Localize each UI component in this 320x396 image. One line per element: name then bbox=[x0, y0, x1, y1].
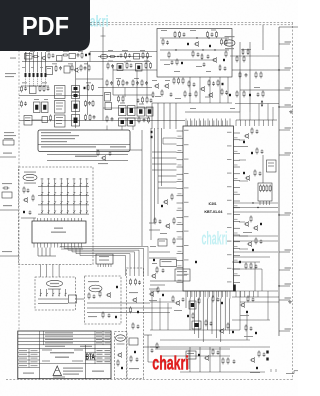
junction bbox=[208, 37, 209, 38]
box bbox=[30, 86, 37, 94]
wire bbox=[60, 178, 62, 182]
diode D8 bbox=[89, 53, 91, 55]
wire bbox=[232, 296, 279, 298]
capacitor C26 bbox=[171, 61, 174, 65]
label bbox=[144, 61, 149, 62]
capacitor C58 bbox=[259, 172, 262, 176]
label bbox=[285, 249, 292, 250]
box bbox=[136, 64, 143, 72]
resistor R3 bbox=[62, 54, 69, 56]
label bbox=[152, 263, 157, 264]
wire bbox=[59, 247, 61, 248]
resistor R17 bbox=[50, 114, 52, 121]
wire bbox=[240, 89, 279, 91]
capacitor C55 bbox=[263, 353, 266, 357]
diode D33 bbox=[151, 136, 153, 138]
resistor R87 bbox=[135, 278, 137, 285]
wire bbox=[209, 347, 211, 372]
resistor R78 bbox=[2, 187, 9, 189]
wire bbox=[58, 289, 60, 292]
wire bbox=[92, 251, 135, 253]
capacitor C6 bbox=[47, 87, 50, 91]
label bbox=[159, 241, 165, 242]
wire bbox=[262, 25, 264, 50]
wire bbox=[234, 275, 241, 277]
resistor R108 bbox=[256, 147, 258, 154]
capacitor C19 bbox=[150, 99, 153, 103]
box bbox=[158, 239, 167, 246]
resistor R1 bbox=[32, 56, 39, 58]
label bbox=[47, 178, 50, 181]
label bbox=[227, 132, 232, 133]
transistor Q12 bbox=[101, 155, 106, 161]
diode D34 bbox=[161, 205, 163, 207]
wire bbox=[234, 159, 241, 161]
connector label bbox=[47, 280, 63, 286]
label bbox=[41, 138, 75, 139]
box bbox=[175, 269, 190, 281]
wire bbox=[106, 126, 108, 131]
box bbox=[42, 117, 48, 123]
label bbox=[110, 146, 126, 147]
wire bbox=[39, 345, 41, 379]
wire bbox=[38, 195, 89, 197]
transistor Q21 bbox=[204, 355, 209, 361]
resistor R98 bbox=[212, 295, 214, 302]
capacitor C52 bbox=[250, 327, 253, 331]
resistor R94 bbox=[157, 286, 159, 293]
wire bbox=[41, 205, 43, 210]
wire bbox=[149, 288, 158, 290]
wire bbox=[202, 299, 204, 343]
wire bbox=[29, 52, 31, 73]
wire bbox=[234, 152, 241, 154]
wire bbox=[25, 52, 27, 73]
resistor R84 bbox=[102, 311, 104, 318]
wire bbox=[90, 51, 157, 53]
wire bbox=[240, 301, 279, 303]
resistor R42 bbox=[179, 31, 181, 38]
wire bbox=[63, 247, 65, 250]
label bbox=[285, 267, 292, 268]
wire bbox=[49, 248, 51, 257]
IC201 bottom pins bbox=[186, 291, 230, 299]
label bbox=[177, 271, 187, 272]
wire bbox=[160, 59, 215, 61]
box bbox=[55, 115, 66, 127]
wire bbox=[38, 144, 130, 146]
wire bbox=[67, 178, 69, 182]
wire bbox=[86, 196, 88, 201]
wire bbox=[219, 77, 221, 103]
wire bbox=[239, 221, 245, 223]
label bbox=[227, 227, 232, 228]
capacitor C21 bbox=[143, 118, 146, 122]
label bbox=[178, 135, 182, 138]
resistor R26 bbox=[145, 62, 147, 69]
wire bbox=[234, 254, 241, 256]
diode D3 bbox=[33, 73, 35, 77]
resistor R36 bbox=[146, 96, 148, 103]
resistor R49 bbox=[176, 58, 178, 65]
diode D31 bbox=[233, 285, 236, 292]
label bbox=[60, 178, 63, 181]
svg-text:PDF: PDF bbox=[22, 11, 69, 41]
switch SW8 bbox=[86, 182, 88, 187]
label bbox=[165, 80, 170, 81]
capacitor C46 bbox=[162, 269, 165, 273]
label bbox=[178, 250, 182, 253]
capacitor C38 bbox=[27, 189, 30, 193]
resistor R77 bbox=[173, 237, 175, 244]
wire bbox=[38, 298, 68, 300]
label bbox=[3, 153, 12, 154]
switch SW30 bbox=[73, 210, 75, 215]
label bbox=[285, 67, 292, 68]
wire bbox=[150, 329, 240, 331]
label bbox=[52, 63, 57, 64]
wire bbox=[236, 119, 277, 121]
capacitor C57 bbox=[261, 150, 264, 154]
wire bbox=[98, 56, 152, 58]
transistor Q9 bbox=[163, 199, 168, 205]
wire bbox=[279, 154, 290, 156]
box bbox=[105, 93, 111, 102]
wire bbox=[18, 337, 111, 339]
wire bbox=[249, 42, 251, 112]
wire bbox=[149, 257, 177, 259]
wire bbox=[230, 55, 279, 57]
wire bbox=[229, 299, 231, 335]
wire bbox=[279, 69, 290, 71]
diode D29 bbox=[222, 83, 224, 85]
transistor Q25 bbox=[244, 221, 249, 227]
wire bbox=[47, 178, 49, 182]
label bbox=[56, 123, 62, 124]
label bbox=[42, 82, 47, 83]
ground bbox=[288, 300, 292, 303]
transistor Q14 bbox=[117, 352, 122, 358]
diode D47 bbox=[221, 302, 223, 304]
wire bbox=[233, 202, 278, 204]
resistor R46 bbox=[221, 38, 223, 45]
wire bbox=[232, 319, 270, 321]
box bbox=[129, 338, 138, 345]
capacitor C43 bbox=[138, 281, 141, 285]
wire bbox=[125, 256, 127, 277]
label bbox=[234, 218, 238, 221]
resistor R54 bbox=[247, 48, 249, 55]
capacitor C8 bbox=[88, 101, 91, 105]
label bbox=[254, 87, 260, 88]
box bbox=[72, 115, 80, 127]
wire bbox=[177, 180, 184, 182]
diode D40 bbox=[134, 351, 136, 353]
capacitor C36 bbox=[225, 91, 228, 95]
label bbox=[4, 138, 13, 139]
wire bbox=[41, 52, 43, 73]
label bbox=[22, 82, 27, 83]
sub-circuit A enclosure bbox=[85, 276, 122, 324]
resistor R82 bbox=[88, 292, 90, 299]
wire bbox=[180, 371, 265, 373]
wire drop bundle bbox=[236, 120, 273, 126]
arrow marker bbox=[261, 100, 263, 107]
box bbox=[55, 86, 66, 99]
capacitor C11 bbox=[128, 54, 131, 58]
switch SW16 bbox=[86, 191, 88, 196]
label bbox=[4, 135, 16, 136]
label bbox=[48, 289, 61, 290]
wire bbox=[177, 202, 184, 204]
label bbox=[206, 71, 211, 72]
wire bbox=[47, 154, 128, 156]
wire bbox=[177, 231, 184, 233]
wire bbox=[234, 261, 241, 263]
wire bbox=[87, 302, 150, 304]
switch SW27 bbox=[54, 210, 56, 215]
box bbox=[25, 54, 33, 60]
wire bbox=[234, 180, 241, 182]
resistor R12 bbox=[87, 84, 89, 91]
resistor R86 bbox=[130, 278, 132, 285]
diode D49 bbox=[195, 323, 199, 327]
label bbox=[116, 78, 121, 79]
label bbox=[19, 354, 27, 355]
wire bbox=[132, 126, 134, 130]
diode D21 bbox=[148, 109, 152, 114]
junction bbox=[278, 214, 279, 215]
switch SW10 bbox=[48, 191, 50, 196]
capacitor C12 bbox=[111, 64, 114, 68]
diode D25 bbox=[181, 62, 183, 64]
wire bbox=[232, 268, 262, 270]
label bbox=[24, 183, 36, 184]
label bbox=[285, 328, 292, 329]
label bbox=[240, 146, 248, 147]
switch SW23 bbox=[80, 200, 82, 205]
connector label bbox=[224, 40, 235, 46]
wire bbox=[235, 103, 279, 105]
wire bbox=[37, 78, 39, 87]
box bbox=[57, 56, 63, 62]
label bbox=[31, 354, 38, 355]
wire bbox=[246, 314, 248, 340]
label bbox=[26, 55, 31, 56]
resistor R76 bbox=[173, 217, 175, 224]
capacitor C16 bbox=[136, 81, 139, 85]
label bbox=[150, 246, 156, 247]
label bbox=[152, 80, 157, 81]
label bbox=[178, 236, 182, 239]
wire bbox=[113, 69, 157, 71]
wire bbox=[22, 85, 49, 87]
diode D13 bbox=[43, 105, 46, 110]
resistor R29 bbox=[118, 79, 120, 86]
wire bbox=[209, 77, 211, 103]
switch SW9 bbox=[41, 191, 43, 196]
wire bbox=[41, 187, 43, 192]
wire bbox=[85, 348, 111, 350]
wire bbox=[67, 205, 69, 210]
wire bbox=[121, 126, 123, 130]
wire bbox=[45, 248, 47, 257]
diode D39 bbox=[137, 311, 139, 313]
capacitor C42 bbox=[108, 314, 111, 318]
wire bbox=[89, 52, 91, 62]
wire bbox=[233, 207, 278, 209]
label bbox=[178, 164, 182, 167]
wire bbox=[152, 151, 177, 153]
wire bbox=[279, 106, 290, 108]
capacitor C40 bbox=[109, 152, 112, 156]
label bbox=[56, 103, 63, 104]
wire bbox=[234, 268, 241, 270]
wire bbox=[32, 119, 42, 121]
svg-text:chakri: chakri bbox=[152, 353, 189, 375]
op-amp U2 keyboard controller bbox=[32, 221, 86, 243]
connector label bbox=[89, 285, 102, 292]
wire bbox=[189, 299, 191, 331]
wire bbox=[234, 139, 241, 141]
diode D59 bbox=[260, 223, 262, 225]
wire bbox=[92, 255, 126, 257]
diode D27 bbox=[223, 59, 225, 61]
switch SW18 bbox=[48, 200, 50, 205]
switch SW19 bbox=[54, 200, 56, 205]
label bbox=[56, 109, 62, 110]
label bbox=[41, 135, 79, 136]
label bbox=[225, 48, 234, 49]
wire bbox=[233, 235, 278, 237]
label bbox=[174, 310, 182, 311]
label bbox=[88, 316, 97, 317]
wire bbox=[278, 27, 280, 336]
resistor R20 bbox=[109, 56, 116, 58]
wire bbox=[239, 159, 246, 161]
wire bbox=[219, 347, 221, 372]
wire bbox=[38, 186, 89, 188]
label bbox=[234, 232, 238, 235]
resistor R45 bbox=[216, 31, 218, 38]
resistor R14 bbox=[21, 100, 23, 107]
junction bbox=[278, 285, 279, 286]
wire bbox=[177, 260, 184, 262]
capacitor C45 bbox=[136, 358, 139, 362]
wire bbox=[177, 252, 184, 254]
label bbox=[31, 361, 38, 362]
label bbox=[227, 281, 232, 282]
resistor R107 bbox=[251, 127, 253, 134]
wire bbox=[234, 248, 241, 250]
wire bbox=[154, 128, 156, 222]
wire bbox=[54, 187, 56, 192]
wire bbox=[177, 245, 184, 247]
wire bbox=[0, 156, 16, 158]
box bbox=[2, 192, 12, 198]
diode D12 bbox=[35, 105, 38, 110]
wire bbox=[141, 130, 143, 246]
resistor R106 bbox=[258, 350, 260, 357]
diode D17 bbox=[137, 66, 140, 70]
wire bbox=[150, 346, 270, 348]
label bbox=[175, 98, 181, 99]
diode D37 bbox=[115, 316, 117, 318]
label bbox=[41, 178, 44, 181]
label bbox=[25, 120, 30, 121]
wire bbox=[279, 330, 290, 332]
wire bbox=[33, 52, 35, 73]
transistor Q18 bbox=[175, 300, 180, 306]
wire bbox=[73, 196, 75, 201]
wire bbox=[124, 62, 126, 64]
label bbox=[129, 368, 139, 369]
wire bbox=[0, 24, 293, 26]
wire bbox=[84, 345, 86, 379]
label bbox=[79, 178, 82, 181]
wire bbox=[54, 178, 56, 182]
wire bbox=[150, 290, 278, 292]
transistor Q10 bbox=[165, 223, 170, 229]
resistor R68 bbox=[188, 80, 190, 87]
resistor R109 bbox=[254, 169, 256, 176]
capacitor C25 bbox=[211, 33, 214, 37]
wire bbox=[47, 205, 49, 210]
label bbox=[118, 337, 124, 338]
label bbox=[10, 58, 16, 59]
resistor R104 bbox=[222, 357, 224, 364]
wire bbox=[87, 307, 150, 309]
resistor R40 bbox=[162, 38, 164, 45]
label bbox=[268, 163, 274, 164]
resistor R51 bbox=[201, 53, 203, 60]
wire bbox=[167, 303, 169, 330]
label bbox=[5, 76, 14, 77]
wire bbox=[254, 262, 256, 291]
resistor R41 bbox=[174, 31, 176, 38]
label bbox=[99, 256, 109, 257]
wire bbox=[239, 42, 241, 112]
wire bbox=[29, 78, 31, 87]
label bbox=[140, 50, 145, 51]
transistor Q23 bbox=[244, 133, 249, 139]
label bbox=[108, 61, 113, 62]
wire bbox=[85, 359, 111, 361]
ground bbox=[289, 110, 293, 113]
wire bbox=[87, 62, 89, 116]
label bbox=[56, 120, 62, 121]
capacitor C60 bbox=[151, 349, 154, 353]
wire bbox=[147, 247, 149, 277]
label bbox=[234, 136, 238, 139]
resistor R103 bbox=[212, 348, 214, 355]
wire bbox=[101, 35, 106, 37]
resistor R85 bbox=[117, 359, 119, 366]
diode D60 bbox=[252, 249, 254, 251]
wire bbox=[0, 209, 18, 211]
label bbox=[134, 78, 139, 79]
wire bbox=[112, 65, 114, 95]
resistor R32 bbox=[141, 79, 143, 86]
label bbox=[96, 336, 102, 337]
capacitor C5 bbox=[24, 87, 27, 91]
label bbox=[285, 297, 292, 298]
diode D54 bbox=[266, 351, 268, 354]
capacitor C44 bbox=[137, 325, 140, 329]
wire bbox=[150, 301, 175, 303]
label bbox=[23, 373, 34, 374]
label bbox=[227, 254, 232, 255]
